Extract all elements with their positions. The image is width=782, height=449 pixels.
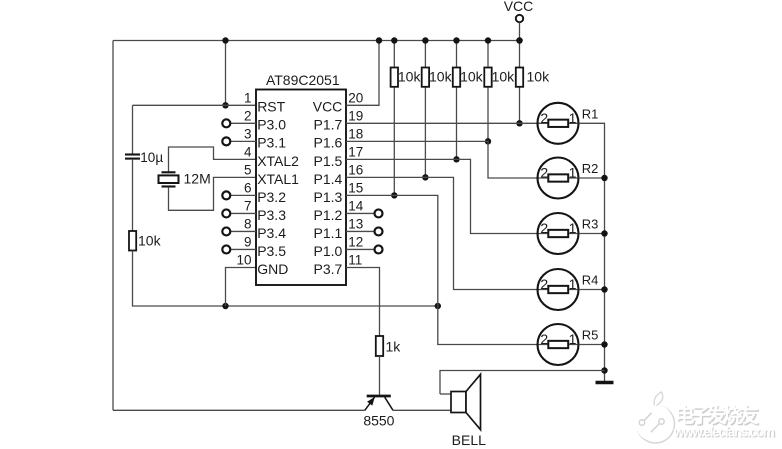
ground	[596, 381, 614, 385]
wire XTAL2 loop	[169, 147, 257, 172]
svg-text:13: 13	[348, 216, 363, 231]
node junction pin20 bus	[376, 37, 382, 43]
svg-text:VCC: VCC	[504, 0, 534, 14]
wire P1.4 to R4	[346, 177, 538, 289]
wire pull-up column 5	[519, 41, 521, 124]
svg-text:1: 1	[569, 110, 577, 126]
node junction top bus / RST drop	[222, 37, 228, 43]
svg-text:7: 7	[244, 198, 252, 213]
svg-text:10k: 10k	[398, 69, 422, 85]
wire bottom emitter run	[113, 409, 365, 411]
svg-text:P1.4: P1.4	[313, 171, 342, 187]
speaker BELL	[451, 374, 481, 429]
svg-text:P3.5: P3.5	[257, 243, 286, 259]
node junction RST line	[222, 102, 228, 108]
wire pull-up column 1	[393, 41, 395, 196]
svg-text:10: 10	[236, 252, 251, 267]
svg-text:10k: 10k	[460, 69, 484, 85]
svg-text:2: 2	[540, 165, 548, 181]
wire P3.7 to 1k	[346, 267, 380, 336]
wire P1.6 to R2	[346, 141, 538, 178]
watermark elecfans logo	[635, 392, 776, 443]
svg-text:P3.4: P3.4	[257, 225, 286, 241]
svg-text:16: 16	[348, 162, 363, 177]
svg-text:www.elecfans.com: www.elecfans.com	[673, 424, 775, 439]
svg-text:AT89C2051: AT89C2051	[266, 72, 340, 88]
svg-text:P3.7: P3.7	[313, 261, 342, 277]
node junction bus col 4	[485, 37, 491, 43]
svg-text:18: 18	[348, 126, 363, 141]
svg-text:4: 4	[244, 144, 252, 159]
label 10k col 4	[492, 69, 516, 85]
resistor RP2 10k	[422, 68, 429, 87]
svg-text:9: 9	[244, 234, 252, 249]
svg-text:P3.3: P3.3	[257, 207, 286, 223]
label 12M	[184, 171, 211, 187]
node junction P1 line col 3	[453, 156, 459, 162]
resistor R6 10k	[129, 231, 136, 251]
svg-text:2: 2	[540, 110, 548, 126]
svg-text:2: 2	[540, 276, 548, 292]
wire pull-up column 4	[487, 41, 489, 142]
svg-text:12M: 12M	[184, 171, 211, 187]
svg-text:P1.0: P1.0	[313, 243, 342, 259]
svg-text:17: 17	[348, 144, 363, 159]
svg-text:R3: R3	[582, 217, 599, 232]
wire pull-up column 2	[424, 41, 426, 178]
node junction bus col 5	[516, 37, 522, 43]
wire bell to right bus	[440, 371, 605, 395]
label BELL	[452, 432, 486, 448]
label R5	[582, 328, 599, 343]
svg-text:6: 6	[244, 180, 252, 195]
label 8550	[363, 413, 394, 429]
label 10k col 3	[460, 69, 484, 85]
svg-text:P3.1: P3.1	[257, 135, 286, 151]
svg-text:10k: 10k	[138, 233, 162, 249]
node junction bus col 3	[453, 37, 459, 43]
node junction P1 line col 1	[391, 192, 397, 198]
svg-text:XTAL1: XTAL1	[257, 171, 299, 187]
svg-text:2: 2	[244, 108, 252, 123]
label 10k reset	[138, 233, 162, 249]
svg-text:15: 15	[348, 180, 363, 195]
svg-text:20: 20	[348, 90, 363, 105]
IC pin name labels	[257, 99, 342, 277]
svg-text:VCC: VCC	[313, 99, 343, 115]
sensor R1	[538, 103, 579, 144]
svg-text:14: 14	[348, 198, 364, 213]
left open pins P3.x	[222, 119, 256, 253]
svg-text:10k: 10k	[429, 69, 453, 85]
sensor R3	[538, 213, 579, 254]
svg-text:11: 11	[348, 252, 362, 267]
node junction P1 line col 5	[516, 120, 522, 126]
sensor R2	[538, 158, 579, 199]
wire P1.7 to R1	[346, 122, 538, 124]
crystal Y1 12M	[159, 172, 179, 186]
label R1	[582, 106, 599, 121]
label VCC	[504, 0, 534, 14]
svg-text:10k: 10k	[492, 69, 516, 85]
resistor RP1 10k	[391, 68, 398, 87]
resistor R7 1k	[376, 336, 383, 356]
wire collector to bell	[393, 409, 451, 411]
svg-text:12: 12	[348, 234, 363, 249]
wire pin20 VCC	[346, 41, 379, 106]
node junction GND drop	[222, 303, 228, 309]
svg-text:P1.6: P1.6	[313, 135, 342, 151]
resistor RP5 10k	[516, 68, 523, 87]
wire pull-up column 3	[456, 41, 458, 160]
svg-text:3: 3	[244, 126, 252, 141]
label R3	[582, 217, 599, 232]
node junction P1.3 drop	[435, 303, 441, 309]
svg-text:R1: R1	[582, 106, 599, 121]
svg-text:1k: 1k	[386, 339, 402, 355]
svg-text:8550: 8550	[363, 413, 394, 429]
svg-text:P1.1: P1.1	[313, 225, 342, 241]
label R4	[582, 273, 599, 288]
resistor RP3 10k	[453, 68, 460, 87]
svg-text:P1.2: P1.2	[313, 207, 342, 223]
wire RST line	[133, 104, 257, 106]
svg-text:P1.7: P1.7	[313, 117, 342, 133]
label 10u	[140, 150, 163, 165]
svg-text:XTAL2: XTAL2	[257, 153, 299, 169]
svg-text:1: 1	[569, 165, 577, 181]
svg-text:10k: 10k	[527, 69, 551, 85]
svg-text:GND: GND	[257, 261, 288, 277]
svg-text:19: 19	[348, 108, 363, 123]
sensor R5	[538, 324, 579, 365]
wire P1.3 to R5	[346, 195, 538, 344]
label AT89C2051	[266, 72, 340, 88]
svg-text:BELL: BELL	[452, 432, 486, 448]
svg-text:1: 1	[569, 220, 577, 236]
label R2	[582, 161, 599, 176]
svg-text:1: 1	[569, 331, 577, 347]
svg-text:R5: R5	[582, 328, 599, 343]
wire top VCC bus	[113, 40, 520, 42]
svg-text:R2: R2	[582, 161, 599, 176]
sensor R4	[538, 269, 579, 310]
svg-text:2: 2	[540, 331, 548, 347]
wire right bus	[579, 123, 605, 382]
IC U1 AT89C2051 body	[256, 90, 346, 286]
wire left border	[112, 41, 114, 411]
IC pin number labels	[236, 90, 363, 267]
svg-text:P1.3: P1.3	[313, 189, 342, 205]
wire capacitor to resistor	[132, 160, 134, 231]
svg-text:RST: RST	[257, 99, 285, 115]
node junction bus col 2	[422, 37, 428, 43]
svg-text:10µ: 10µ	[140, 150, 163, 165]
label 10k col 5	[527, 69, 551, 85]
wire XTAL1 loop	[169, 177, 257, 210]
wire GND pin	[226, 267, 257, 306]
svg-text:8: 8	[244, 216, 252, 231]
label 10k col 1	[398, 69, 422, 85]
svg-text:5: 5	[244, 162, 252, 177]
node junction bus col 1	[391, 37, 397, 43]
svg-text:1: 1	[244, 90, 252, 105]
svg-text:R4: R4	[582, 273, 599, 288]
wires sensors to right bus	[579, 175, 608, 348]
node junction P1 line col 4	[485, 138, 491, 144]
svg-text:P3.2: P3.2	[257, 189, 286, 205]
svg-text:P3.0: P3.0	[257, 117, 286, 133]
svg-text:1: 1	[569, 276, 577, 292]
wire resistor to lower bus	[133, 251, 438, 307]
node junction speaker wire	[601, 367, 607, 373]
wire RST to capacitor	[132, 105, 134, 153]
wire VCC to RST	[225, 41, 227, 106]
label 1k	[386, 339, 402, 355]
wire P1.5 to R3	[346, 159, 538, 233]
transistor Q1 8550	[365, 396, 393, 410]
node junction P1 line col 2	[422, 174, 428, 180]
node VCC terminal	[516, 15, 523, 44]
svg-text:2: 2	[540, 220, 548, 236]
wire 1k to base	[379, 356, 381, 395]
right open pins P1.2 P1.1 P1.0	[346, 209, 383, 253]
svg-text:P1.5: P1.5	[313, 153, 342, 169]
resistor RP4 10k	[484, 68, 491, 87]
label 10k col 2	[429, 69, 453, 85]
capacitor C1 10u	[125, 155, 140, 159]
